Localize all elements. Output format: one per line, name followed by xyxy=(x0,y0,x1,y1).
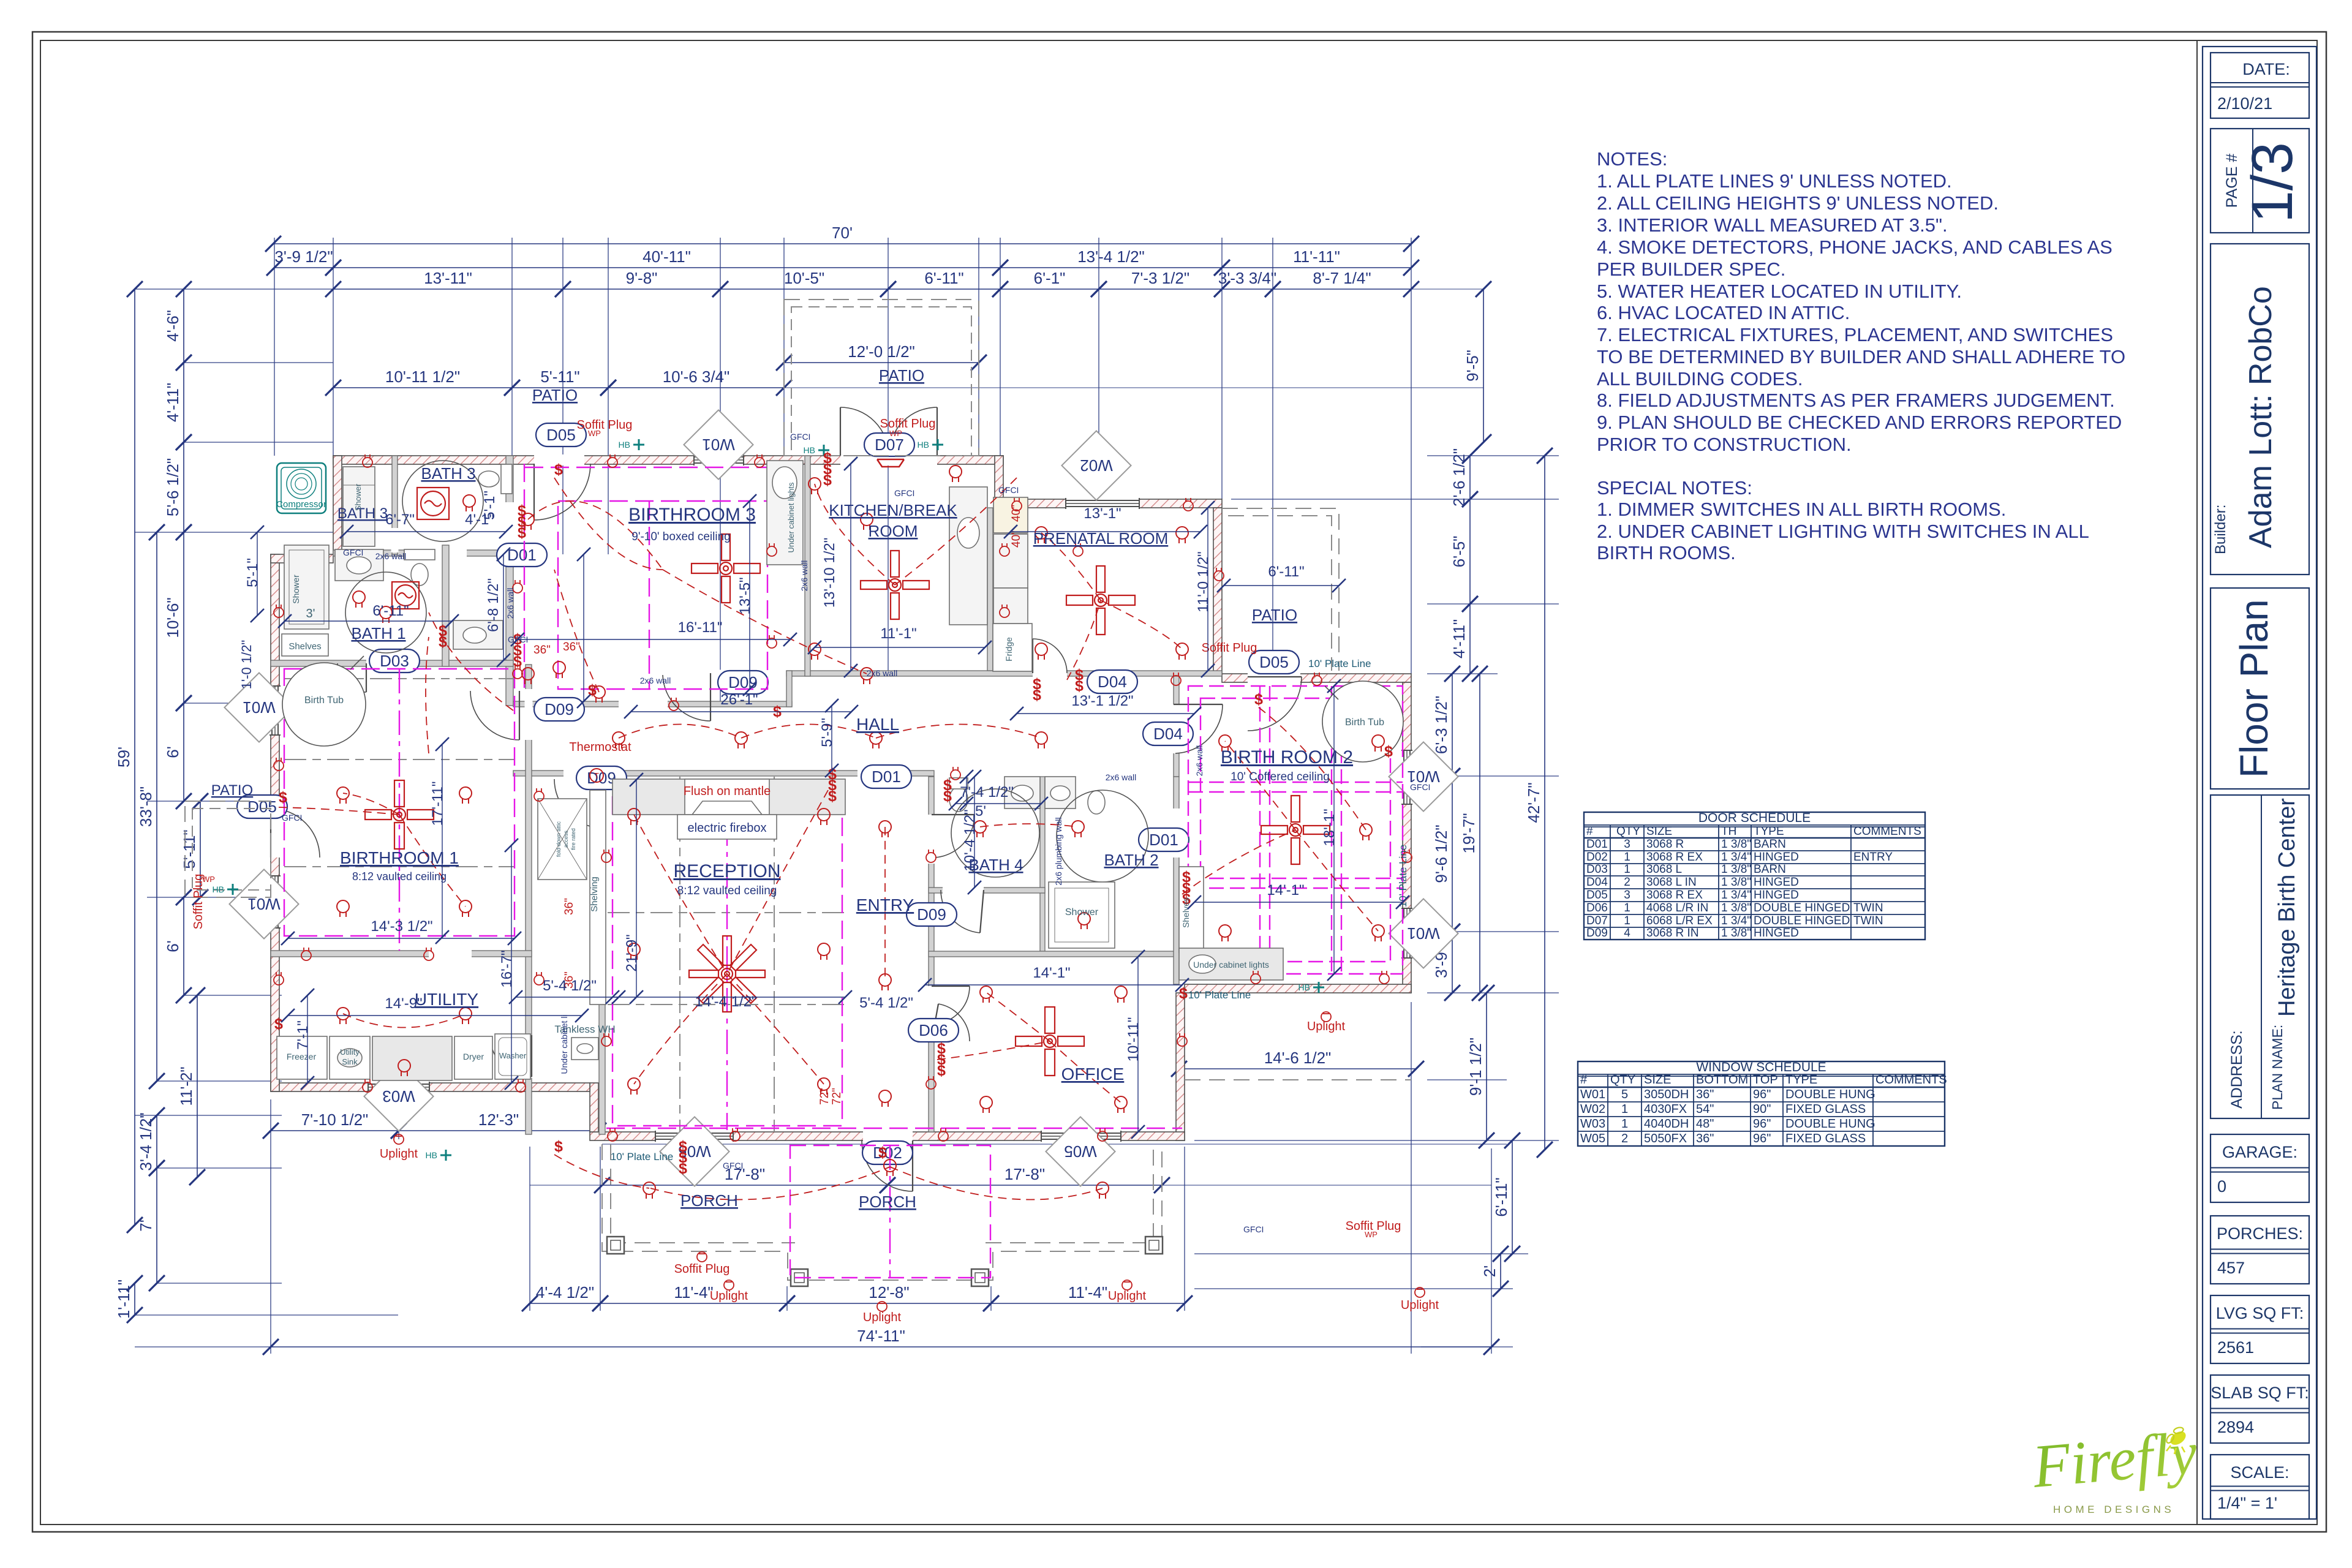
svg-text:HALL: HALL xyxy=(856,715,899,734)
ceiling fan birthroom 3 xyxy=(692,534,760,603)
bath 2 toilet xyxy=(1088,791,1105,814)
svg-text:5'-4 1/2": 5'-4 1/2" xyxy=(859,995,913,1011)
svg-text:2x6 wall: 2x6 wall xyxy=(640,676,671,685)
ceiling fan office xyxy=(1016,1007,1084,1076)
svg-text:DOOR SCHEDULE: DOOR SCHEDULE xyxy=(1698,811,1811,825)
svg-text:SIZE: SIZE xyxy=(1646,825,1672,838)
bath 1 sink xyxy=(335,549,383,581)
svg-text:9'-8": 9'-8" xyxy=(626,269,658,287)
svg-text:5'-11": 5'-11" xyxy=(180,829,198,869)
svg-text:1: 1 xyxy=(1624,851,1630,864)
svg-text:8'-7 1/4": 8'-7 1/4" xyxy=(1313,269,1371,287)
svg-text:72": 72" xyxy=(831,1088,843,1105)
br2 cabinet xyxy=(1179,948,1283,980)
birth tub 2 xyxy=(1322,681,1403,762)
dimension 3'-9 1/2" xyxy=(266,247,341,276)
shelves birth room 2 xyxy=(1179,867,1204,952)
utility freezer xyxy=(277,1036,327,1079)
svg-text:$: $ xyxy=(513,653,522,670)
svg-text:3068 R: 3068 R xyxy=(1646,838,1684,851)
svg-text:Uplight: Uplight xyxy=(710,1289,748,1303)
svg-text:Shelves: Shelves xyxy=(288,641,321,652)
svg-text:3068 R EX: 3068 R EX xyxy=(1646,851,1703,864)
bath 2 sink xyxy=(1045,777,1076,809)
svg-text:electric firebox: electric firebox xyxy=(688,821,767,835)
svg-text:WP: WP xyxy=(1365,1230,1378,1239)
svg-text:3068 R IN: 3068 R IN xyxy=(1646,927,1699,940)
svg-text:Birth Tub: Birth Tub xyxy=(304,695,344,706)
svg-text:SLAB SQ FT:: SLAB SQ FT: xyxy=(2211,1384,2309,1402)
svg-text:5'-9": 5'-9" xyxy=(819,718,835,747)
door label D07 xyxy=(864,433,914,456)
svg-text:Uplight: Uplight xyxy=(380,1147,418,1161)
entry/office ceiling dash xyxy=(606,1128,1182,1129)
svg-text:19'-7": 19'-7" xyxy=(1460,813,1478,853)
bath 4 sink xyxy=(1005,777,1040,809)
svg-text:10' Plate Line: 10' Plate Line xyxy=(611,1151,674,1163)
svg-text:D05: D05 xyxy=(546,426,576,444)
svg-text:D03: D03 xyxy=(380,652,409,670)
birthroom3 cabinets xyxy=(767,461,803,565)
svg-text:6'-3 1/2": 6'-3 1/2" xyxy=(1432,696,1450,754)
hose bib HB xyxy=(440,1150,451,1161)
svg-text:5050FX: 5050FX xyxy=(1644,1132,1687,1145)
wall kitchen west wall xyxy=(805,456,810,676)
svg-text:W05: W05 xyxy=(1580,1132,1605,1145)
dimension 12'-0 1/2" xyxy=(776,342,987,371)
svg-text:$: $ xyxy=(279,789,287,806)
birth tub 1 xyxy=(282,663,366,746)
svg-text:2. UNDER CABINET LIGHTING WITH: 2. UNDER CABINET LIGHTING WITH SWITCHES … xyxy=(1597,521,2089,542)
wall prenatal east wall xyxy=(1213,508,1222,674)
svg-text:PORCH: PORCH xyxy=(680,1191,738,1210)
south-east patio dashed xyxy=(1185,1079,1411,1080)
ceiling fan birthroom 1 xyxy=(365,780,434,849)
bath 1 shower xyxy=(284,545,329,629)
dimension 5'-11" xyxy=(180,793,208,905)
compressor xyxy=(277,463,326,513)
svg-text:GFCI: GFCI xyxy=(790,432,810,442)
ceiling fan kitchen xyxy=(861,551,929,619)
birth room 2 coffered ceiling xyxy=(1188,686,1403,974)
general notes text block xyxy=(1597,148,2125,563)
inch notes xyxy=(533,505,1023,1105)
svg-text:9'-6 1/2": 9'-6 1/2" xyxy=(1432,824,1450,883)
svg-text:3': 3' xyxy=(306,607,315,620)
wall south wall entry/office xyxy=(590,1132,1185,1140)
svg-text:$: $ xyxy=(1254,691,1263,708)
svg-text:54": 54" xyxy=(1696,1102,1714,1116)
exhaust fan bath1 xyxy=(392,582,419,609)
thermostat symbol xyxy=(590,769,603,782)
door D09 kitchen xyxy=(663,673,710,721)
bath 4 circle xyxy=(951,789,1039,877)
dimension 13'-11" xyxy=(325,269,571,297)
svg-text:Under cabinet li: Under cabinet li xyxy=(559,1014,569,1074)
svg-text:DOUBLE HINGED: DOUBLE HINGED xyxy=(1754,914,1850,927)
svg-text:17'-11": 17'-11" xyxy=(429,782,446,826)
svg-text:W05: W05 xyxy=(1064,1142,1096,1161)
svg-text:$: $ xyxy=(878,1144,887,1161)
svg-text:36": 36" xyxy=(1696,1132,1714,1145)
svg-text:PATIO: PATIO xyxy=(211,782,253,799)
svg-text:40'-11": 40'-11" xyxy=(643,247,691,266)
utility sink box xyxy=(330,1036,370,1079)
window label W05 xyxy=(660,1117,729,1186)
wall birth room 1 south wall xyxy=(271,951,532,957)
svg-text:UTILITY: UTILITY xyxy=(415,990,479,1009)
svg-text:$: $ xyxy=(937,1062,946,1079)
wall office east wall xyxy=(1176,993,1185,1140)
svg-text:2x6 wall: 2x6 wall xyxy=(1106,772,1137,782)
door D02 entry xyxy=(862,1140,913,1191)
svg-text:TOP: TOP xyxy=(1753,1073,1778,1087)
svg-text:QTY: QTY xyxy=(1616,825,1640,838)
exterior walls xyxy=(271,456,1411,1140)
dimension 70' xyxy=(265,224,1419,252)
wall bath 1 step wall xyxy=(271,554,333,563)
svg-text:$: $ xyxy=(1033,687,1041,704)
svg-text:5': 5' xyxy=(975,803,986,820)
wall birth room 2 east wall xyxy=(1403,682,1411,993)
dimension 14'-6 1/2" xyxy=(1171,1049,1424,1077)
fireplace xyxy=(612,779,845,815)
svg-text:HINGED: HINGED xyxy=(1754,927,1799,940)
dimension 3'-9" xyxy=(1432,924,1460,1001)
svg-text:13'-1": 13'-1" xyxy=(1084,505,1121,522)
svg-text:Under cabinet lights: Under cabinet lights xyxy=(1193,960,1269,970)
svg-text:10' Plate Line: 10' Plate Line xyxy=(1188,989,1251,1001)
svg-text:HOME DESIGNS: HOME DESIGNS xyxy=(2053,1504,2174,1515)
svg-text:PRIOR TO CONSTRUCTION.: PRIOR TO CONSTRUCTION. xyxy=(1597,434,1852,455)
utility counter xyxy=(372,1036,452,1080)
dimension 10'-11 1/2" xyxy=(325,367,520,396)
svg-text:2561: 2561 xyxy=(2217,1338,2254,1357)
svg-text:Birth Tub: Birth Tub xyxy=(1345,717,1384,728)
door D06 leaf up xyxy=(932,986,970,1023)
svg-text:1'-11": 1'-11" xyxy=(115,1280,133,1319)
door D09 hall nook xyxy=(470,691,519,740)
dimension 9'-5" xyxy=(1463,281,1491,450)
svg-text:1 3/8": 1 3/8" xyxy=(1721,902,1751,914)
window label W01 xyxy=(224,673,293,742)
fixtures xyxy=(277,461,1403,1080)
svg-text:Soffit Plug: Soffit Plug xyxy=(674,1262,730,1276)
svg-text:10'-11 1/2": 10'-11 1/2" xyxy=(385,367,460,386)
svg-text:W02: W02 xyxy=(1080,456,1112,475)
svg-text:7': 7' xyxy=(137,1219,155,1231)
dimension 6'-1" xyxy=(992,269,1107,297)
wall left wing east wall xyxy=(526,665,532,1134)
svg-text:6'-7": 6'-7" xyxy=(385,511,415,528)
svg-text:4030FX: 4030FX xyxy=(1644,1102,1687,1116)
hose bib HB xyxy=(227,884,238,895)
svg-text:59': 59' xyxy=(115,747,133,767)
svg-text:9'-5": 9'-5" xyxy=(1463,350,1482,382)
svg-text:Soffit Plug: Soffit Plug xyxy=(577,418,633,432)
svg-text:14'-4 1/2": 14'-4 1/2" xyxy=(695,993,756,1010)
svg-text:D06: D06 xyxy=(919,1021,948,1039)
svg-text:TWIN: TWIN xyxy=(1853,914,1883,927)
svg-text:1/4" = 1': 1/4" = 1' xyxy=(2217,1494,2277,1512)
porch dashed boundary xyxy=(602,1144,1162,1280)
svg-text:1/3: 1/3 xyxy=(2240,142,2305,223)
svg-text:1 3/8": 1 3/8" xyxy=(1721,876,1751,889)
svg-text:6'-11": 6'-11" xyxy=(372,603,409,619)
wall hall north wall west xyxy=(513,701,792,707)
svg-text:Washer: Washer xyxy=(499,1051,527,1060)
dimension 10'-6" xyxy=(164,524,192,711)
svg-text:W01: W01 xyxy=(243,698,275,717)
svg-text:PATIO: PATIO xyxy=(879,366,924,385)
titleblock box LVG SQ FT xyxy=(2211,1295,2309,1363)
svg-text:HINGED: HINGED xyxy=(1754,889,1799,902)
dimension 11'-11" xyxy=(1214,247,1419,276)
prenatal cabinets xyxy=(993,588,1028,624)
svg-text:0: 0 xyxy=(2217,1177,2226,1196)
dimension 12'-3" xyxy=(391,1110,606,1139)
svg-text:$: $ xyxy=(943,788,952,805)
svg-text:LVG SQ FT:: LVG SQ FT: xyxy=(2216,1304,2304,1322)
svg-text:2/10/21: 2/10/21 xyxy=(2217,94,2272,113)
svg-text:W03: W03 xyxy=(382,1087,415,1106)
wall bath 4 south wall xyxy=(929,888,1045,893)
svg-text:5. WATER HEATER LOCATED IN UTI: 5. WATER HEATER LOCATED IN UTILITY. xyxy=(1597,281,1962,302)
svg-text:4. SMOKE DETECTORS, PHONE JACK: 4. SMOKE DETECTORS, PHONE JACKS, AND CAB… xyxy=(1597,236,2113,258)
dimension 40'-11" xyxy=(325,247,1008,276)
door D06 leaf down xyxy=(932,1004,970,1041)
bath 1 turning circle xyxy=(345,572,426,653)
svg-text:#: # xyxy=(1586,825,1593,838)
svg-text:12'-0 1/2": 12'-0 1/2" xyxy=(848,342,915,361)
svg-text:Shelves: Shelves xyxy=(1181,897,1191,928)
wall utility south wall xyxy=(271,1083,590,1091)
wall west wall xyxy=(271,554,279,1091)
dimension 13'-4 1/2" xyxy=(992,247,1230,276)
wall kitchen stub xyxy=(786,671,792,707)
svg-text:4040DH: 4040DH xyxy=(1644,1117,1689,1131)
birthroom 3 boxed ceiling xyxy=(524,464,525,689)
dimension 3'-4 1/2" xyxy=(137,1107,165,1176)
titleblock outer frame xyxy=(2203,47,2316,1519)
svg-text:13'-5": 13'-5" xyxy=(737,577,753,614)
svg-text:6'-11": 6'-11" xyxy=(1268,563,1304,580)
door label D05 xyxy=(1249,650,1299,674)
svg-text:WINDOW SCHEDULE: WINDOW SCHEDULE xyxy=(1696,1060,1826,1074)
svg-text:$: $ xyxy=(679,1160,687,1177)
svg-text:D07: D07 xyxy=(875,435,904,454)
washer xyxy=(495,1034,530,1079)
ceiling fan birth room 2 xyxy=(1261,796,1330,864)
svg-text:ADDRESS:: ADDRESS: xyxy=(2228,1030,2245,1109)
svg-text:11'-1": 11'-1" xyxy=(880,625,916,642)
svg-text:Uplight: Uplight xyxy=(1108,1289,1147,1303)
svg-text:40": 40" xyxy=(1010,505,1023,522)
svg-text:NOTES:: NOTES: xyxy=(1597,148,1667,170)
svg-text:ENTRY: ENTRY xyxy=(856,895,914,914)
svg-text:TO BE DETERMINED BY BUILDER AN: TO BE DETERMINED BY BUILDER AND SHALL AD… xyxy=(1597,346,2125,367)
svg-text:BOTTOM: BOTTOM xyxy=(1696,1073,1748,1087)
svg-text:access: access xyxy=(563,830,569,848)
shelving reception xyxy=(590,790,606,1005)
titleblock box SLAB SQ FT xyxy=(2211,1375,2309,1443)
svg-text:Fridge: Fridge xyxy=(1004,637,1014,661)
svg-text:6'-5": 6'-5" xyxy=(1450,536,1468,568)
svg-text:D04: D04 xyxy=(1098,673,1127,691)
wall bath block south wall xyxy=(333,550,513,556)
svg-text:D09: D09 xyxy=(1586,927,1608,940)
bath 3 toilet xyxy=(478,471,499,487)
birthroom1 ceiling break lines xyxy=(284,678,514,679)
window label W03 xyxy=(364,1061,433,1131)
svg-text:8:12 vaulted ceiling: 8:12 vaulted ceiling xyxy=(677,884,777,897)
svg-text:D01: D01 xyxy=(1149,831,1178,849)
door D03 birth room 1 xyxy=(337,663,366,692)
tankless WH xyxy=(571,1038,598,1060)
svg-text:48": 48" xyxy=(1696,1117,1714,1131)
svg-text:5: 5 xyxy=(1621,1088,1628,1101)
window schedule table xyxy=(1578,1061,1945,1146)
magenta ceiling lines xyxy=(284,464,1403,1278)
svg-text:1 3/4": 1 3/4" xyxy=(1721,851,1751,864)
dimension 5'-11" xyxy=(504,367,616,396)
svg-text:$: $ xyxy=(823,472,832,489)
svg-text:Under cabinet lights: Under cabinet lights xyxy=(786,482,796,552)
hose bib HB xyxy=(818,445,829,456)
svg-text:2894: 2894 xyxy=(2217,1418,2254,1436)
reception vaulted ceiling xyxy=(612,790,842,1126)
svg-text:11'-4": 11'-4" xyxy=(1068,1283,1107,1302)
svg-text:5'-4 1/2": 5'-4 1/2" xyxy=(543,978,597,994)
ceiling fan prenatal room xyxy=(1066,566,1135,635)
door D09 reception xyxy=(554,779,603,828)
wall top wall left wing xyxy=(333,456,1003,464)
svg-text:3068 L: 3068 L xyxy=(1646,863,1682,876)
svg-text:COMMENTS: COMMENTS xyxy=(1853,825,1921,838)
svg-text:BIRTH ROOMS.: BIRTH ROOMS. xyxy=(1597,542,1736,563)
ceiling fan reception xyxy=(689,936,765,1012)
dimension 3'-3 3/4" xyxy=(1214,269,1281,297)
door label D05 xyxy=(536,423,586,447)
svg-text:457: 457 xyxy=(2217,1259,2245,1277)
svg-text:HINGED: HINGED xyxy=(1754,851,1799,864)
svg-text:PATIO: PATIO xyxy=(1252,606,1297,624)
svg-text:2: 2 xyxy=(1624,876,1630,889)
electric firebox box xyxy=(677,815,777,839)
door D07 leaf left xyxy=(840,407,889,456)
svg-text:PORCHES:: PORCHES: xyxy=(2217,1224,2303,1243)
svg-text:D06: D06 xyxy=(1586,902,1608,914)
svg-text:Soffit Plug: Soffit Plug xyxy=(880,417,936,431)
door D07 leaf right xyxy=(889,407,937,456)
svg-text:$: $ xyxy=(518,524,526,541)
svg-text:FIXED GLASS: FIXED GLASS xyxy=(1785,1132,1866,1145)
dimension 6'-3 1/2" xyxy=(1432,666,1460,784)
svg-text:Utility: Utility xyxy=(340,1047,360,1057)
svg-text:GFCI: GFCI xyxy=(343,548,363,557)
svg-text:TYPE: TYPE xyxy=(1785,1073,1817,1087)
wall reception west wall xyxy=(599,777,605,1134)
svg-text:5'-6 1/2": 5'-6 1/2" xyxy=(164,458,182,516)
door label D01 xyxy=(861,765,911,788)
svg-text:2x6 plumbing wall: 2x6 plumbing wall xyxy=(1053,817,1063,885)
svg-text:3068 L IN: 3068 L IN xyxy=(1646,876,1697,889)
svg-text:9. PLAN SHOULD BE CHECKED AND: 9. PLAN SHOULD BE CHECKED AND ERRORS REP… xyxy=(1597,412,2122,433)
door label D03 xyxy=(369,649,420,673)
svg-text:D09: D09 xyxy=(545,700,574,718)
svg-text:21'-9": 21'-9" xyxy=(624,934,640,971)
svg-text:8. FIELD ADJUSTMENTS AS PER FR: 8. FIELD ADJUSTMENTS AS PER FRAMERS JUDG… xyxy=(1597,390,2115,411)
wall bath 1 south wall xyxy=(271,660,513,666)
svg-text:72": 72" xyxy=(818,1088,831,1105)
svg-text:D02: D02 xyxy=(873,1144,902,1162)
svg-text:10' Coffered ceiling: 10' Coffered ceiling xyxy=(1231,771,1330,783)
svg-text:BATH 2: BATH 2 xyxy=(1104,851,1158,869)
dimension 4'-6" xyxy=(164,281,192,371)
dimension 10'-5" xyxy=(712,269,896,297)
svg-text:SCALE:: SCALE: xyxy=(2230,1463,2289,1482)
dimension 17'-8" xyxy=(594,1165,895,1193)
svg-text:Uplight: Uplight xyxy=(863,1311,902,1324)
door label D09 xyxy=(576,766,627,790)
svg-text:COMMENTS: COMMENTS xyxy=(1875,1073,1947,1087)
dimension 4'-11" xyxy=(164,355,192,450)
svg-text:3068 R EX: 3068 R EX xyxy=(1646,889,1703,902)
svg-text:17'-8": 17'-8" xyxy=(1005,1165,1045,1183)
svg-text:11'-2": 11'-2" xyxy=(177,1066,195,1106)
svg-text:5'-11": 5'-11" xyxy=(540,367,579,386)
titleblock box SCALE xyxy=(2211,1455,2309,1519)
wall prenatal top wall xyxy=(1003,499,1222,508)
svg-text:2x6 wall: 2x6 wall xyxy=(505,588,515,619)
svg-text:ROOM: ROOM xyxy=(869,522,918,540)
svg-text:BATH 3: BATH 3 xyxy=(337,505,388,522)
recessed lights xyxy=(337,466,1384,1199)
svg-text:12'-3": 12'-3" xyxy=(478,1110,519,1129)
dimension 7' xyxy=(137,1160,165,1291)
dimension 9'-8" xyxy=(555,269,728,297)
porch center magenta xyxy=(790,1145,990,1278)
svg-text:HB: HB xyxy=(918,440,929,450)
door label D09 xyxy=(534,698,584,721)
svg-text:6'-8 1/2": 6'-8 1/2" xyxy=(485,578,502,632)
svg-text:7'-1": 7'-1" xyxy=(295,1020,311,1050)
svg-text:96": 96" xyxy=(1753,1132,1771,1145)
svg-text:1 3/8": 1 3/8" xyxy=(1721,838,1751,851)
titleblock box PAGE xyxy=(2211,129,2309,233)
svg-text:QTY: QTY xyxy=(1610,1073,1635,1087)
svg-text:GFCI: GFCI xyxy=(998,485,1019,495)
dimension 17'-8" xyxy=(880,1165,1170,1193)
svg-text:4'-4 1/2": 4'-4 1/2" xyxy=(536,1283,594,1302)
titleblock box PORCHES xyxy=(2211,1216,2309,1284)
dimension 9'-6 1/2" xyxy=(1432,768,1460,940)
hall nook counter xyxy=(453,620,503,649)
dimension 59' xyxy=(115,281,143,1233)
extension line grid xyxy=(135,238,1559,1354)
svg-text:96": 96" xyxy=(1753,1117,1771,1131)
svg-text:1 3/4": 1 3/4" xyxy=(1721,889,1751,902)
bath 4 toilet xyxy=(949,787,968,812)
svg-text:6068 L/R EX: 6068 L/R EX xyxy=(1646,914,1713,927)
svg-text:2x6 wall: 2x6 wall xyxy=(375,551,407,561)
svg-text:W01: W01 xyxy=(1580,1088,1605,1101)
svg-text:14'-6 1/2": 14'-6 1/2" xyxy=(1264,1049,1332,1067)
door utility xyxy=(490,1035,532,1077)
svg-text:PLAN NAME:: PLAN NAME: xyxy=(2269,1025,2285,1110)
svg-text:fold-down attic: fold-down attic xyxy=(556,821,562,857)
svg-text:90": 90" xyxy=(1753,1102,1771,1116)
